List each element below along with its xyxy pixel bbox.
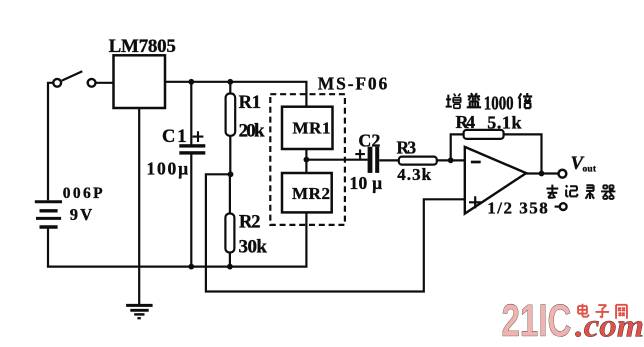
svg-text:LM7805: LM7805: [109, 36, 176, 57]
svg-text:.com: .com: [575, 309, 644, 345]
svg-text:1/2 358: 1/2 358: [487, 199, 548, 218]
svg-text:10 μ: 10 μ: [350, 173, 383, 193]
svg-text:MS-F06: MS-F06: [318, 74, 388, 94]
svg-text:MR2: MR2: [292, 184, 330, 203]
svg-text:006P: 006P: [63, 185, 103, 202]
svg-text:R2: R2: [239, 213, 261, 233]
svg-text:5.1k: 5.1k: [487, 113, 521, 133]
svg-text:1000: 1000: [484, 92, 514, 114]
svg-text:C2: C2: [358, 130, 380, 150]
svg-text:20k: 20k: [239, 121, 265, 142]
svg-text:MR1: MR1: [293, 119, 331, 138]
svg-text:C1: C1: [162, 127, 187, 147]
svg-text:R1: R1: [239, 93, 261, 113]
svg-text:R4: R4: [456, 112, 476, 132]
svg-text:21IC: 21IC: [502, 295, 572, 346]
svg-text:4.3k: 4.3k: [397, 165, 431, 184]
svg-text:30k: 30k: [239, 237, 268, 258]
svg-text:out: out: [583, 165, 597, 175]
svg-text:100μ: 100μ: [147, 159, 189, 179]
svg-text:R3: R3: [397, 138, 417, 158]
svg-text:9V: 9V: [70, 205, 93, 224]
